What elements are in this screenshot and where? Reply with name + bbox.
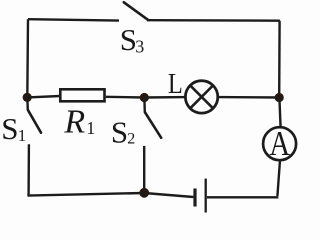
switch S1 bbox=[27, 99, 41, 133]
wire ammeter bottom to corner bbox=[277, 160, 280, 196]
lamp L bbox=[185, 81, 217, 113]
wire left vertical lower bbox=[27, 144, 30, 195]
node junction bottom bbox=[139, 188, 149, 198]
label R1 bbox=[63, 104, 95, 141]
label S2 bbox=[111, 115, 135, 150]
svg-text:R: R bbox=[63, 104, 85, 141]
node junction left bbox=[23, 93, 32, 102]
wire left junction to resistor bbox=[27, 96, 60, 97]
wire top-right segment bbox=[147, 19, 280, 22]
wire resistor to S2 junction bbox=[106, 96, 145, 99]
svg-text:S: S bbox=[1, 111, 18, 146]
svg-text:A: A bbox=[269, 123, 290, 162]
node junction right bbox=[275, 93, 284, 102]
ammeter A bbox=[263, 123, 296, 162]
svg-text:1: 1 bbox=[18, 126, 27, 145]
svg-text:2: 2 bbox=[127, 130, 135, 147]
wire left vertical upper bbox=[26, 19, 29, 97]
wire bottom-middle segment bbox=[144, 193, 193, 197]
wire S2 lower stub bbox=[143, 146, 145, 193]
wire S2 junction to lamp bbox=[144, 96, 186, 99]
wire bottom-right segment bbox=[207, 196, 278, 198]
switch S2 bbox=[144, 99, 161, 138]
label S3 bbox=[120, 22, 144, 57]
switch S3 bbox=[124, 2, 148, 20]
resistor R1 bbox=[60, 89, 104, 101]
svg-text:3: 3 bbox=[135, 37, 144, 57]
battery bbox=[195, 179, 206, 213]
label L bbox=[168, 67, 183, 99]
wire bottom-left segment bbox=[28, 193, 145, 196]
label S1 bbox=[1, 111, 26, 146]
wire right vertical upper bbox=[278, 21, 281, 98]
wire top-left segment bbox=[28, 19, 119, 20]
wire lamp to right junction bbox=[218, 96, 280, 99]
wire right vertical to ammeter bbox=[279, 98, 280, 128]
svg-text:1: 1 bbox=[86, 118, 95, 138]
svg-text:L: L bbox=[168, 67, 183, 99]
node junction S2 top bbox=[140, 93, 149, 102]
svg-text:S: S bbox=[111, 115, 128, 150]
